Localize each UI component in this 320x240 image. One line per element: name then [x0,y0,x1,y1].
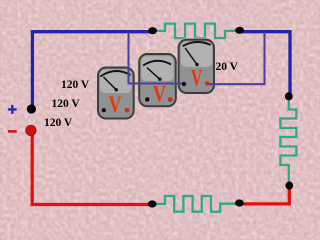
terminal dot U3 right (period of V.) [205,81,209,85]
wire blue left-top (battery + to top-left corner to node A) [32,32,153,108]
node D (bottom of R2) [285,182,293,190]
battery negative terminal dot [26,125,36,135]
battery positive terminal dot [27,104,36,113]
svg-text:V: V [153,82,166,107]
wire red bottom-right (node E to corner to node D) [240,185,290,204]
svg-text:120 V: 120 V [61,79,90,91]
svg-text:V: V [191,66,203,91]
battery minus sign [8,130,17,133]
wire meter lead (from top wire down and across to U3 left terminal) [129,32,185,84]
resistor R3 (bottom) [152,196,236,212]
resistor R2 (right) [280,97,296,186]
wire red bottom-left (battery - to bottom-left corner to node F) [32,131,152,205]
node C (top of R2) [285,92,293,100]
voltmeter U2 (middle meter) [138,53,177,107]
svg-text:V: V [109,92,122,117]
svg-text:20 V: 20 V [216,61,239,73]
wire meter lead (from U3 right terminal across and up to top wire) [207,32,265,84]
wire blue top-right (node B to corner to node C) [240,32,290,97]
node E (right of R3) [235,199,244,206]
resistor R1 (top) [153,24,237,39]
node B (top right of R1) [235,27,244,34]
voltmeter U1 (bottom-left meter) [97,67,135,120]
terminal dot U3 left [182,82,186,86]
svg-text:120 V: 120 V [52,98,81,110]
node A (top left of R1) [148,27,157,34]
node F (left of R3) [148,200,157,207]
svg-text:120 V: 120 V [44,117,73,129]
battery plus sign [8,105,17,114]
voltmeter U3 (top-right meter, reads 20 V) [178,39,215,94]
